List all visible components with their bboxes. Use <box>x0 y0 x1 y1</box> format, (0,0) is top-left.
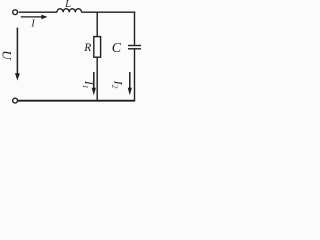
capacitor C bottom plate <box>128 48 141 50</box>
terminal bottom-left <box>13 98 18 103</box>
svg-text:U: U <box>0 50 14 61</box>
terminal top-left <box>13 10 18 15</box>
svg-text:R: R <box>83 42 91 54</box>
voltage arrow U <box>15 28 20 81</box>
wire R-branch lower <box>96 57 98 101</box>
branch arrow I1 <box>92 72 96 95</box>
wire top (terminal to inductor) <box>19 11 57 13</box>
current arrow I <box>21 15 48 20</box>
wire right vertical (corner to capacitor) <box>134 12 136 45</box>
svg-text:C: C <box>112 41 122 56</box>
capacitor C top plate <box>128 45 141 47</box>
wire bottom <box>18 100 136 102</box>
svg-text:I: I <box>30 19 35 30</box>
resistor R body <box>94 37 101 58</box>
branch arrow I2 <box>128 72 132 95</box>
wire R-branch upper <box>96 12 98 36</box>
svg-text:L: L <box>64 0 71 10</box>
wire top (inductor to right corner) <box>82 11 136 13</box>
wire right vertical (capacitor to bottom corner) <box>134 50 136 101</box>
inductor L <box>57 9 81 13</box>
